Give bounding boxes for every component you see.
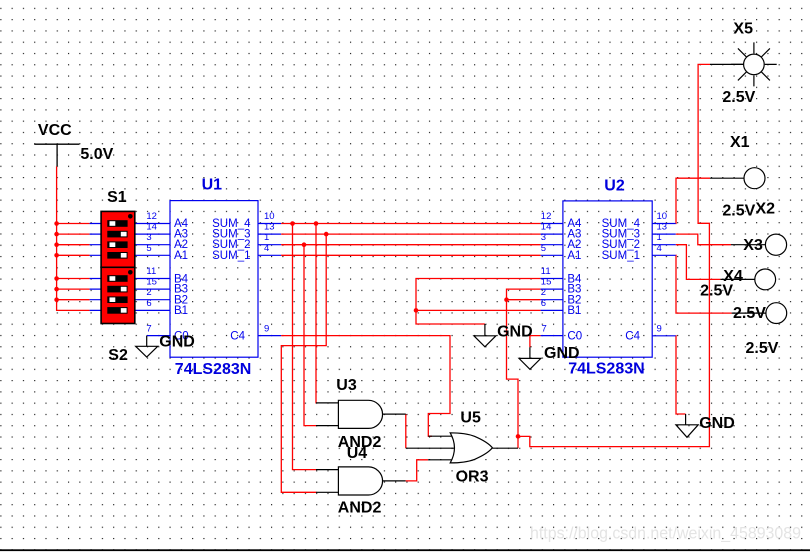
wire U2 C0 to ground [530, 336, 541, 348]
switch S2 body [101, 267, 135, 323]
wire trunk to S1 row3 [57, 244, 90, 246]
wire U2 SUM2 to X4 [676, 245, 721, 280]
wire U2 B1 row [416, 309, 541, 311]
svg-text:5: 5 [146, 243, 151, 254]
wire OR3 output to X5 [518, 64, 710, 446]
svg-text:VCC: VCC [38, 122, 72, 139]
node OR out [516, 434, 521, 439]
op-amp U5 OR3 gate [406, 433, 518, 463]
lamp X5 [710, 42, 777, 86]
wire U2 B3/B2 to OR output node [507, 289, 541, 448]
lamp X4 [720, 269, 775, 290]
node SUM4 a [290, 221, 295, 226]
svg-text:2.5V: 2.5V [722, 89, 755, 106]
junction dots [54, 221, 520, 439]
U2 pin names [567, 218, 640, 342]
wire trunk to S1 row2 [57, 233, 90, 235]
node trunk row6 [54, 287, 59, 292]
S1 left stubs [90, 224, 102, 256]
svg-text:GND: GND [497, 323, 533, 340]
U2 left stubs [541, 224, 563, 336]
svg-text:9: 9 [264, 324, 269, 335]
svg-text:U1: U1 [202, 176, 223, 193]
wire U2 B2 row [507, 299, 541, 301]
node B2 [504, 297, 509, 302]
wire trunk to S1 row1 [57, 223, 90, 225]
svg-text:1: 1 [657, 232, 662, 243]
ground GND4 (U2 C4) [676, 414, 698, 437]
ground GND1 (under S2) [136, 336, 158, 357]
wire trunk to S2 row1 [57, 278, 90, 280]
U2 pin numbers [541, 211, 667, 335]
svg-text:GND: GND [159, 333, 195, 350]
svg-text:U5: U5 [460, 410, 481, 427]
svg-text:AND2: AND2 [338, 500, 382, 517]
svg-text:6: 6 [146, 298, 151, 309]
ground GND2 (U2 C0) [519, 347, 541, 369]
ground GND3 (U2 B net) [474, 324, 496, 347]
svg-text:3: 3 [541, 232, 546, 243]
U1 pin7 stub [147, 335, 170, 337]
svg-text:X2: X2 [756, 201, 776, 218]
svg-text:2.5V: 2.5V [746, 340, 779, 357]
svg-text:6: 6 [541, 298, 546, 309]
svg-text:4: 4 [264, 243, 269, 254]
S2 left stubs [90, 279, 102, 311]
svg-text:13: 13 [264, 222, 275, 233]
wire U1 SUM3 to U2 A3 [281, 233, 540, 235]
node SUM2 [302, 242, 307, 247]
U2 right stubs [652, 224, 676, 336]
svg-text:GND: GND [699, 415, 735, 432]
op chip U2 box [563, 201, 652, 357]
wire SUM2 drop to U3 input2 [304, 245, 317, 426]
svg-text:2.5V: 2.5V [722, 203, 755, 220]
node trunk row7 [54, 297, 59, 302]
bottom border [0, 549, 810, 551]
svg-text:15: 15 [541, 277, 552, 288]
wire U3 output to OR3 input2 [405, 414, 407, 448]
wire U1 SUM1 to U2 A1 [281, 254, 540, 256]
svg-text:2.5V: 2.5V [700, 283, 733, 300]
op-amp U4 AND2 gate [316, 467, 406, 495]
svg-text:SUM_1: SUM_1 [212, 250, 250, 262]
S1 to U1 A stubs [135, 224, 170, 256]
wire U2 B4/B1 to ground [416, 279, 541, 325]
wire U2 C4 to ground [676, 336, 686, 414]
svg-text:11: 11 [541, 266, 551, 277]
svg-text:OR3: OR3 [456, 468, 489, 485]
node B1 [414, 308, 419, 313]
svg-text:U3: U3 [336, 377, 357, 394]
wire U2 SUM1 to X2 [676, 255, 732, 313]
node trunk row5 [54, 276, 59, 281]
wire U4 output to OR3 input3 [406, 460, 428, 481]
svg-text:4: 4 [657, 243, 662, 254]
node trunk row4 [54, 253, 59, 258]
svg-text:2: 2 [541, 287, 546, 298]
op chip U1 box [170, 201, 258, 358]
lamp X3 [731, 234, 787, 255]
svg-text:7: 7 [542, 324, 547, 335]
svg-text:5: 5 [541, 243, 546, 254]
U1 pin names [174, 218, 251, 342]
svg-text:SUM_1: SUM_1 [602, 250, 640, 262]
svg-text:7: 7 [146, 324, 151, 335]
svg-text:10: 10 [264, 211, 275, 222]
svg-text:1: 1 [264, 232, 269, 243]
lamp X2 [732, 303, 787, 324]
svg-text:74LS283N: 74LS283N [175, 361, 252, 378]
svg-text:U4: U4 [347, 445, 368, 462]
svg-text:B1: B1 [567, 305, 581, 317]
svg-text:A1: A1 [567, 250, 581, 262]
wire SUM4 drop to U3 input1 [315, 224, 318, 403]
U1 pin numbers [146, 211, 274, 335]
svg-text:15: 15 [146, 277, 157, 288]
svg-text:13: 13 [657, 222, 668, 233]
pin stubs (blue) [90, 224, 676, 336]
svg-text:https://blog.csdn.net/weixin_4: https://blog.csdn.net/weixin_45893089 [530, 524, 801, 543]
wire U2 SUM3 to X3 [676, 234, 731, 245]
svg-text:3: 3 [146, 232, 151, 243]
svg-text:S1: S1 [107, 189, 127, 206]
node trunk row3 [54, 242, 59, 247]
wire SUM4 drop to U4 input1 [293, 224, 317, 470]
node trunk row1 [54, 221, 59, 226]
wire U1 SUM2 to U2 A2 [281, 244, 540, 246]
svg-text:C0: C0 [567, 330, 582, 342]
wire trunk to S1 row4 [57, 254, 90, 256]
svg-text:2: 2 [146, 287, 151, 298]
svg-text:X5: X5 [733, 20, 753, 37]
wire SUM3 drop reroute to U4 input2 [281, 234, 326, 492]
node SUM4 b [314, 221, 319, 226]
node SUM3 [324, 232, 329, 237]
wire trunk to S2 row2 [57, 288, 90, 290]
svg-text:5.0V: 5.0V [80, 146, 113, 163]
svg-text:12: 12 [146, 211, 157, 222]
S2 to U1 B stubs [135, 279, 170, 311]
wire U1 C4 to OR3 input1 [281, 336, 450, 437]
svg-text:12: 12 [541, 211, 552, 222]
wires (red) [57, 64, 732, 492]
svg-text:C4: C4 [625, 330, 640, 342]
svg-text:2.5V: 2.5V [733, 305, 766, 322]
svg-text:GND: GND [544, 345, 580, 362]
power VCC [34, 144, 79, 166]
wire trunk to S2 row3 [57, 299, 90, 301]
svg-text:10: 10 [657, 211, 668, 222]
wire U2 SUM4 to X1 [676, 178, 710, 223]
svg-text:X3: X3 [743, 237, 763, 254]
svg-text:S2: S2 [108, 347, 128, 364]
op-amp U3 AND2 gate [316, 400, 406, 428]
svg-text:A1: A1 [174, 250, 188, 262]
svg-text:U2: U2 [604, 178, 625, 195]
svg-text:X1: X1 [730, 134, 750, 151]
svg-text:74LS283N: 74LS283N [568, 361, 645, 378]
svg-text:B1: B1 [174, 305, 188, 317]
svg-text:C4: C4 [230, 330, 245, 342]
svg-text:9: 9 [657, 324, 662, 335]
svg-text:11: 11 [146, 266, 156, 277]
wire VCC trunk [57, 166, 90, 310]
svg-text:14: 14 [146, 222, 157, 233]
node trunk row2 [54, 232, 59, 237]
lamp X1 [710, 168, 765, 189]
U1 right stubs [258, 224, 281, 336]
wire U1 SUM4 to U2 A4 [281, 223, 540, 225]
svg-text:14: 14 [541, 222, 552, 233]
switch S1 body [101, 211, 135, 267]
